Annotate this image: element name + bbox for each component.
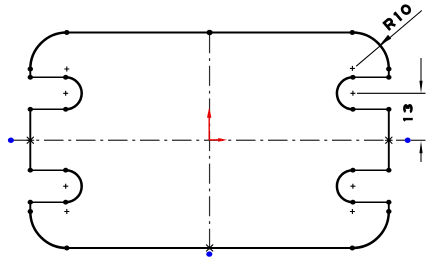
dimension line upper segment 13 — [420, 58, 422, 82]
origin arrow up — [207, 107, 211, 117]
arrow up 13 — [419, 141, 422, 153]
slot arc left-top — [66, 77, 82, 109]
origin arrow right — [218, 138, 227, 142]
corner arc bottom-left R10 — [30, 212, 67, 249]
vertex points — [28, 30, 392, 251]
arc center marks — [63, 66, 355, 214]
blue endpoint bottom — [206, 251, 212, 256]
slot arc right-bottom — [337, 170, 353, 202]
bottom edge — [67, 247, 353, 249]
dimension text R10 — [383, 3, 412, 30]
slot lines left-bottom — [30, 170, 65, 202]
slot lines left-top — [30, 77, 65, 109]
right edge segments — [388, 69, 390, 212]
corner arc top-left R10 — [30, 33, 67, 70]
top edge — [67, 32, 353, 34]
corner arc top-right R10 — [352, 33, 389, 70]
slot arc left-bottom — [66, 170, 82, 202]
arrow down 13 — [419, 81, 422, 94]
leader arrowhead R10 — [380, 35, 392, 45]
dimension text 13 — [403, 105, 413, 120]
origin axes — [209, 117, 219, 140]
left edge segments — [29, 69, 31, 212]
slot lines right-bottom — [353, 170, 389, 202]
blue endpoint left — [8, 138, 14, 143]
corner arc bottom-right R10 — [352, 212, 389, 249]
blue endpoint right — [405, 138, 411, 143]
dimension line lower segment 13 — [420, 152, 422, 162]
midpoint star bottom — [206, 245, 213, 251]
slot lines right-top — [353, 77, 389, 109]
extension line centerline — [411, 139, 426, 141]
midpoint star right — [385, 137, 392, 143]
leader line R10 — [356, 11, 422, 67]
extension line notch center — [357, 92, 426, 94]
vertical centerline — [209, 33, 211, 253]
horizontal centerline — [12, 139, 408, 141]
midpoint star left — [27, 137, 34, 143]
slot arc right-top — [337, 77, 353, 109]
